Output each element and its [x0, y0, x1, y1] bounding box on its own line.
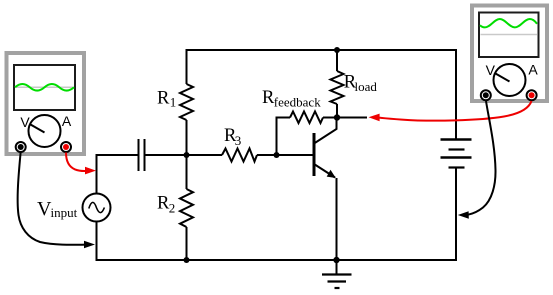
- probe lead M1 black (to Vinput lower wire): [18, 152, 95, 249]
- wire R1 bottom lead: [186, 120, 188, 155]
- wire bottom rail: [97, 259, 457, 261]
- wire mid rail left (to capacitor): [96, 154, 139, 156]
- svg-text:input: input: [51, 205, 78, 220]
- probe lead M2 black (to battery bottom wire): [458, 101, 496, 219]
- wire right vertical (battery top): [455, 49, 457, 140]
- capacitor C1: [139, 139, 145, 171]
- wire emitter vertical: [336, 178, 338, 260]
- probe lead M1 red (to coupling cap input wire): [66, 153, 96, 175]
- meter M1 (left oscilloscope-meter): [7, 53, 85, 154]
- wire Rload bottom lead: [336, 104, 338, 118]
- AC source Vinput: [37, 194, 111, 222]
- wire R2 bottom lead: [186, 227, 188, 260]
- wire left vertical (Vinput branch upper): [96, 154, 98, 194]
- wire mid rail (capacitor to node): [145, 154, 187, 156]
- wire R2 top lead: [186, 155, 188, 189]
- wire feedback to collector node: [323, 117, 337, 119]
- wire left vertical (Vinput branch lower): [96, 221, 98, 261]
- resistor R3: [222, 126, 257, 161]
- svg-text:3: 3: [235, 133, 242, 148]
- node input (cap/R1/R2/R3 junction): [184, 152, 190, 158]
- wire base lead: [277, 154, 314, 156]
- node base junction: [274, 152, 280, 158]
- node collector junction: [334, 114, 340, 120]
- battery B1: [441, 140, 472, 168]
- wire R3 to base node: [257, 154, 277, 156]
- node R2 bottom junction: [184, 257, 190, 263]
- svg-text:A: A: [62, 113, 72, 129]
- resistor Rload: [331, 71, 378, 104]
- svg-text:V: V: [486, 62, 496, 78]
- svg-text:V: V: [20, 114, 30, 130]
- wire node to R3: [187, 154, 223, 156]
- transistor Q1: [314, 117, 337, 178]
- probe lead M2 red (to collector stub): [369, 101, 532, 121]
- svg-text:A: A: [528, 62, 538, 78]
- node emitter/ground junction: [333, 257, 339, 263]
- ground: [322, 260, 352, 288]
- resistor R2: [157, 189, 193, 227]
- meter M2 (right oscilloscope-meter): [472, 6, 547, 102]
- wire right vertical (battery bottom): [455, 168, 457, 262]
- wire R1 branch top lead: [186, 49, 188, 84]
- wire collector stub (probe point): [337, 117, 367, 119]
- resistor Rfeedback: [262, 88, 323, 123]
- svg-text:load: load: [355, 79, 378, 94]
- node Rload top junction: [334, 47, 340, 53]
- resistor R1: [157, 84, 193, 120]
- wire top rail: [187, 49, 457, 51]
- svg-text:2: 2: [169, 200, 176, 215]
- svg-text:feedback: feedback: [274, 95, 321, 110]
- svg-text:1: 1: [170, 94, 177, 109]
- wire base node riser to feedback: [277, 118, 291, 157]
- wire Rload top lead: [336, 49, 338, 71]
- svg-text:R: R: [157, 88, 170, 108]
